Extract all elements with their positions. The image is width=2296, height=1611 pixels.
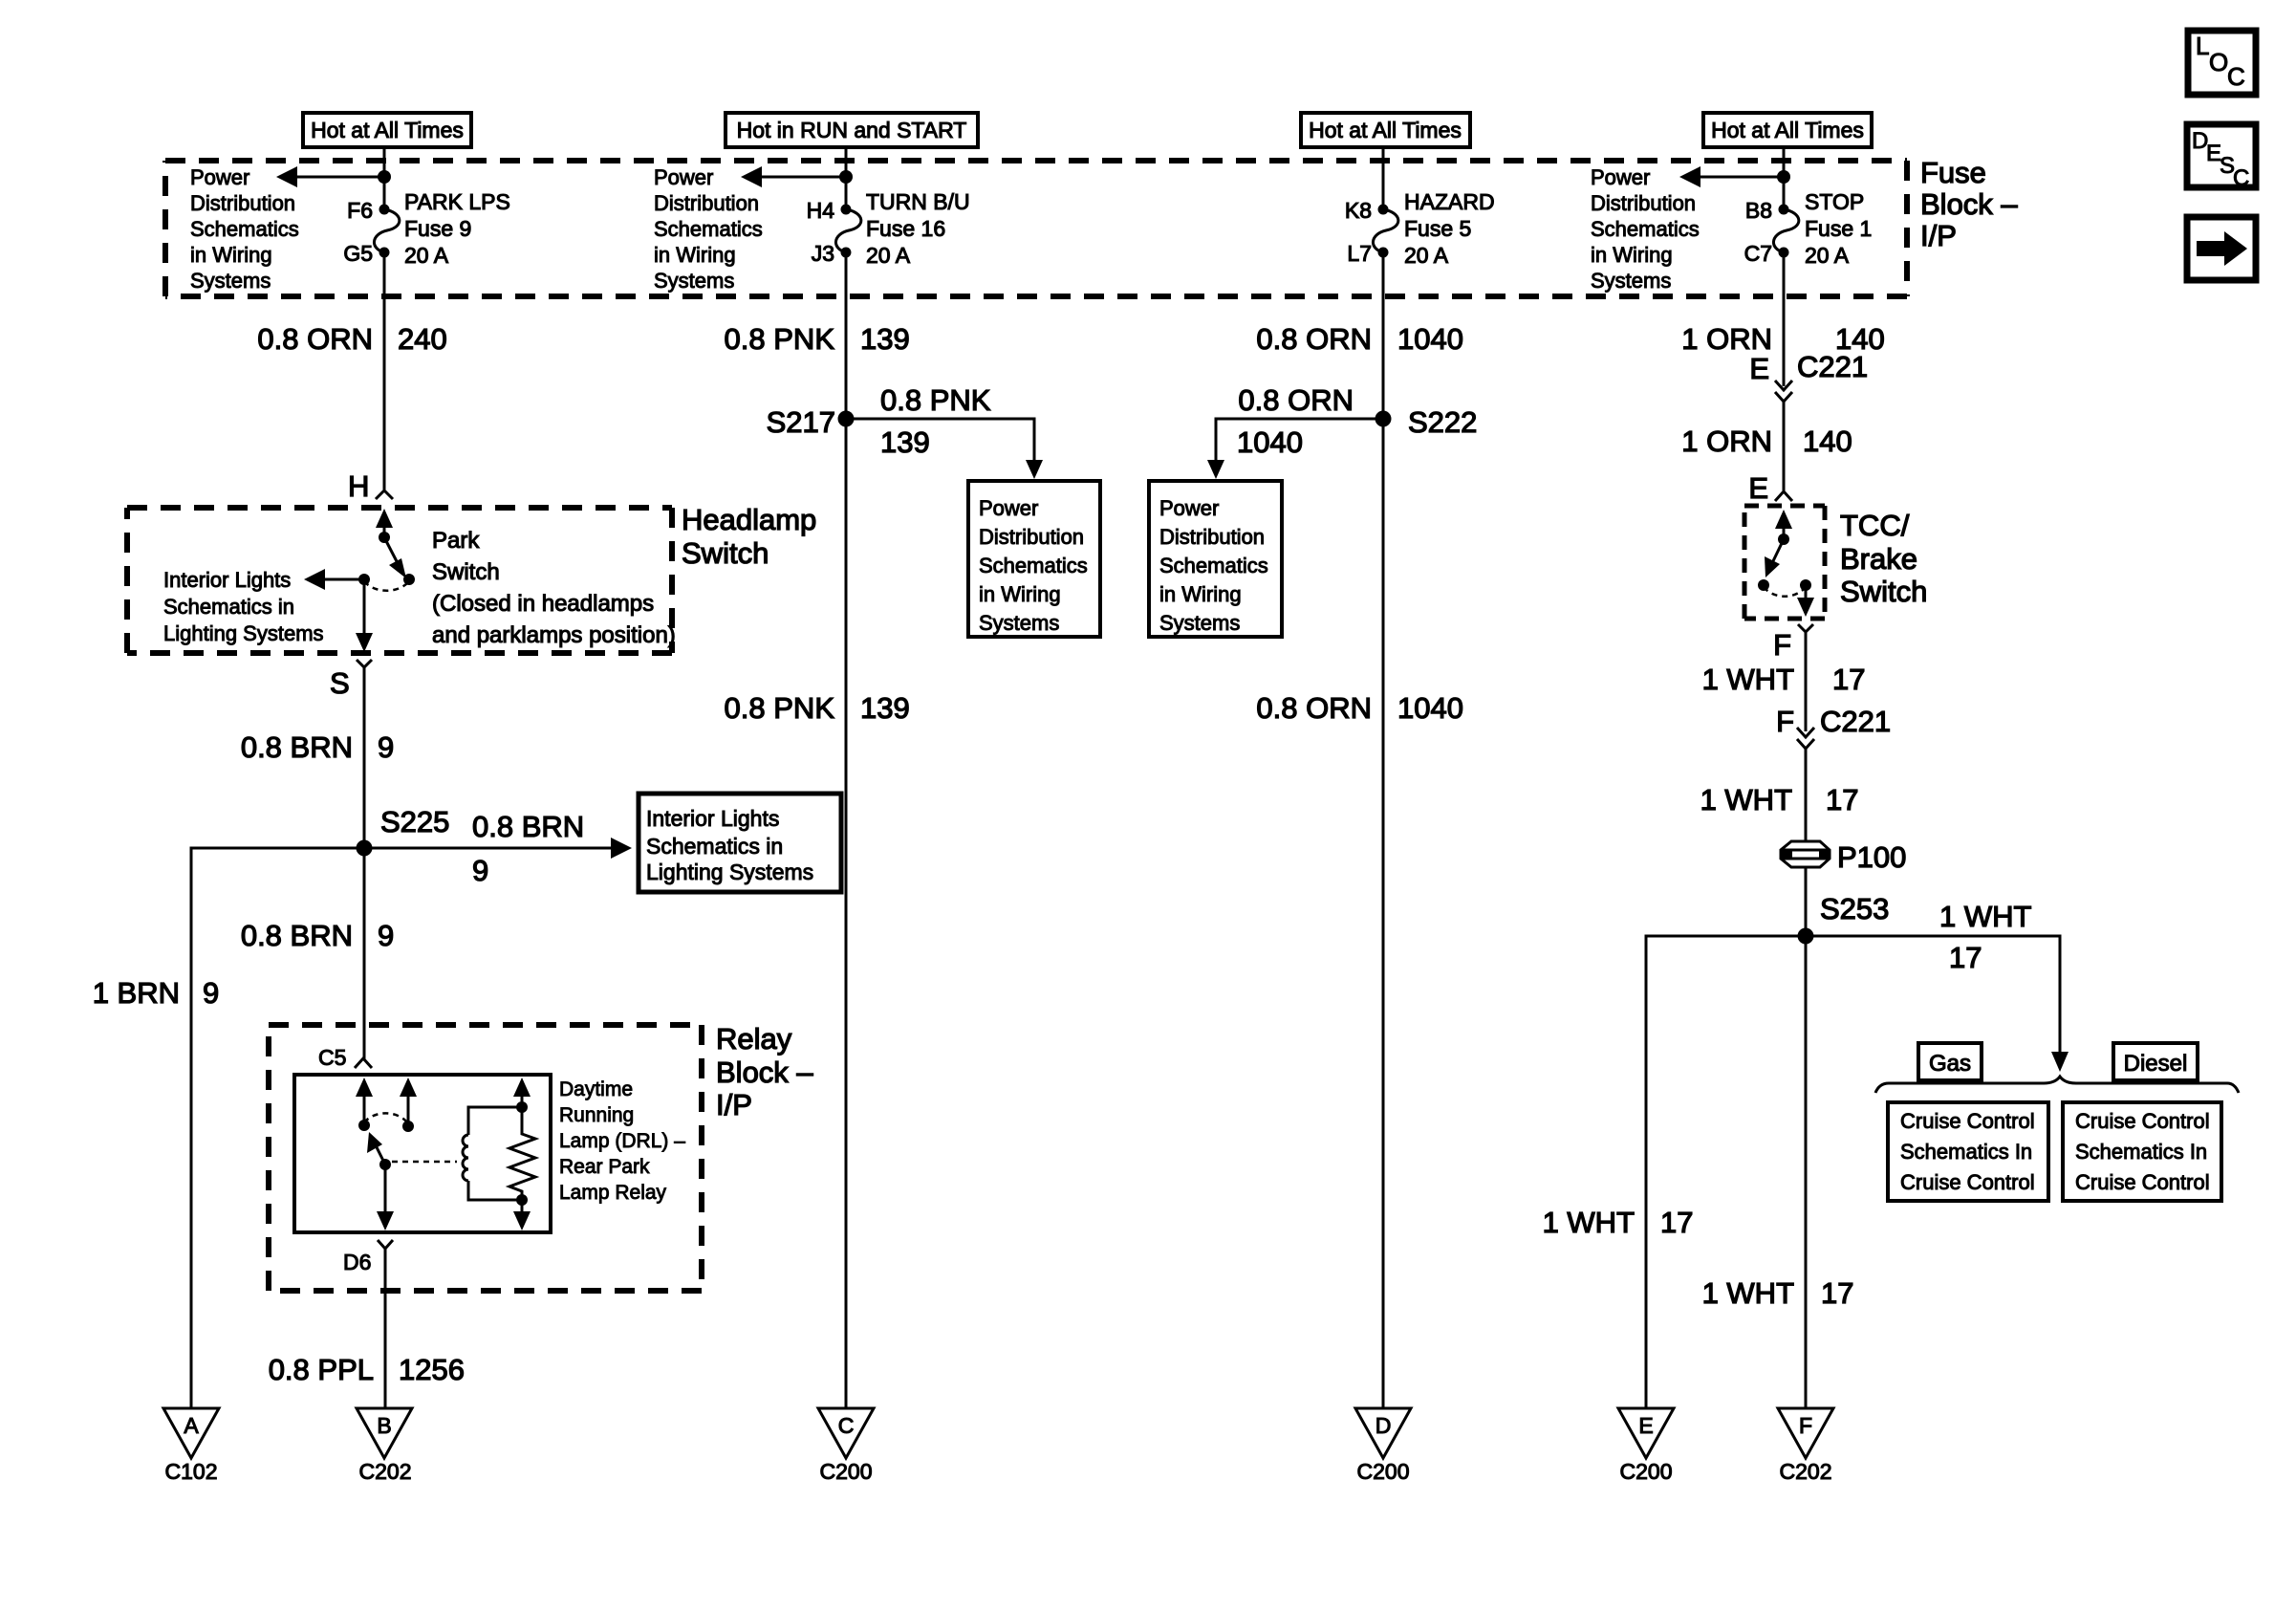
label Fuse Block - I/P [1920,156,2018,252]
svg-text:1 WHT: 1 WHT [1702,1276,1795,1310]
svg-text:Switch: Switch [682,536,769,570]
svg-text:and parklamps position): and parklamps position) [432,622,676,648]
svg-text:Lamp (DRL) –: Lamp (DRL) – [559,1130,685,1152]
svg-text:D: D [1375,1413,1392,1438]
connector chevron C5 [355,1058,372,1068]
svg-text:STOP: STOP [1805,189,1864,214]
connector triangle A [163,1408,219,1484]
svg-text:Fuse 1: Fuse 1 [1805,216,1872,241]
svg-text:in Wiring: in Wiring [1591,243,1673,267]
svg-text:C5: C5 [318,1045,346,1070]
svg-text:Distribution: Distribution [1591,191,1696,215]
wire col1 fuse to headlamp switch [383,252,386,490]
svg-text:Interior Lights: Interior Lights [163,568,291,592]
wire col4 arrow to power distribution [1679,166,1784,187]
svg-text:0.8 PNK: 0.8 PNK [880,383,991,417]
label Power Distribution Schematics in Wiring Systems (col 4) [1591,165,1700,293]
wire col3 feed from header [1382,148,1385,209]
svg-text:Power: Power [979,496,1038,520]
label TCC/ Brake Switch [1840,509,1927,608]
svg-text:Schematics: Schematics [1591,217,1700,241]
wire col4 fuse down to C221 [1783,252,1786,386]
park switch contacts [358,574,415,591]
svg-text:Headlamp: Headlamp [682,503,816,536]
connector chevron H [376,490,393,499]
label 0.8 BRN 9 (lower) [241,919,394,952]
wire S225 down to relay block [363,848,366,1060]
svg-text:Hot at All Times: Hot at All Times [311,118,464,142]
svg-text:Schematics: Schematics [1159,554,1268,577]
label Power Distribution Schematics in Wiring Systems (col 1) [190,165,299,293]
svg-text:G5: G5 [343,241,373,266]
label PARK LPS Fuse 9 20 A [404,189,510,268]
svg-text:0.8 BRN: 0.8 BRN [241,919,353,952]
svg-text:S217: S217 [767,405,835,439]
headlamp switch dashed box [127,508,672,653]
svg-text:Hot at All Times: Hot at All Times [1309,118,1462,142]
svg-text:Cruise Control: Cruise Control [1900,1170,2035,1194]
connector triangle E [1618,1408,1674,1484]
svg-text:Schematics In: Schematics In [1900,1140,2032,1164]
svg-text:Distribution: Distribution [1159,525,1265,549]
svg-text:Systems: Systems [979,611,1059,635]
svg-text:S222: S222 [1408,405,1477,439]
svg-text:Daytime: Daytime [559,1078,633,1100]
svg-text:Systems: Systems [1159,611,1240,635]
svg-text:17: 17 [1826,783,1858,816]
svg-text:1 ORN: 1 ORN [1681,425,1772,458]
wire D6 to connector B [384,1249,387,1408]
wire col4 feed from header [1783,148,1786,209]
wire F to C221 second crossing [1805,632,1808,731]
interior lights schematics box [639,794,841,892]
svg-text:Lighting Systems: Lighting Systems [163,621,324,645]
svg-text:9: 9 [378,730,394,764]
svg-text:C: C [2233,165,2249,191]
svg-text:1040: 1040 [1237,425,1303,459]
svg-text:TCC/: TCC/ [1840,509,1910,542]
power distribution schematics box (col2) [968,481,1100,637]
svg-text:F: F [1799,1413,1812,1438]
svg-text:C221: C221 [1797,350,1868,383]
svg-text:Schematics: Schematics [654,217,763,241]
svg-text:P100: P100 [1837,840,1906,874]
svg-text:0.8 PNK: 0.8 PNK [725,691,835,725]
svg-text:Block –: Block – [1920,187,2018,221]
connector triangle B [357,1408,412,1484]
cruise control schematics box (diesel) [2063,1102,2221,1201]
label Daytime Running Lamp (DRL) - Rear Park Lamp Relay [559,1078,685,1204]
svg-text:0.8 PNK: 0.8 PNK [725,322,835,356]
svg-text:Switch: Switch [432,559,500,585]
svg-text:Schematics In: Schematics In [2075,1140,2207,1164]
connector chevron D6 [378,1240,393,1249]
wire col2 feed from header [845,148,848,209]
wire P100 to S253 [1805,866,1808,936]
svg-text:Power: Power [654,165,713,189]
svg-text:Fuse 5: Fuse 5 [1404,216,1471,241]
svg-text:C7: C7 [1744,241,1772,266]
LOC legend icon [2188,31,2256,95]
wire col2 arrow to power distribution [741,166,846,187]
node S253 splice [1798,892,1890,945]
wire col3 S222 down to connector D [1382,419,1385,1408]
svg-text:H4: H4 [807,198,835,223]
svg-text:B: B [377,1413,391,1438]
connector chevron E [1775,491,1792,501]
svg-text:139: 139 [860,691,910,725]
fuse STOP Fuse 1 20 A [1773,205,1798,258]
relay block I/P dashed box [269,1025,702,1291]
svg-text:C221: C221 [1820,705,1891,738]
svg-text:D6: D6 [343,1250,371,1274]
svg-text:140: 140 [1803,425,1852,458]
TCC switch output arrow down [1797,585,1814,617]
svg-text:Distribution: Distribution [654,191,759,215]
svg-text:Systems: Systems [654,269,734,293]
svg-text:Fuse: Fuse [1920,156,1986,189]
svg-text:Systems: Systems [190,269,271,293]
svg-text:20 A: 20 A [1404,243,1449,268]
svg-text:K8: K8 [1345,198,1372,223]
svg-text:C200: C200 [820,1459,873,1484]
svg-text:9: 9 [472,854,488,887]
svg-text:0.8 ORN: 0.8 ORN [1256,322,1372,356]
label 0.8 PNK 139 (upper) [725,322,910,356]
svg-text:139: 139 [880,425,930,459]
park switch arm [384,537,406,578]
svg-text:I/P: I/P [716,1088,752,1121]
relay contact arrow up (left) [356,1078,373,1131]
svg-text:17: 17 [1660,1206,1693,1239]
svg-text:E: E [1638,1413,1653,1438]
svg-text:C202: C202 [1780,1459,1832,1484]
node col4 branch junction [1777,170,1790,184]
DESC legend icon [2187,124,2256,191]
node S222 splice [1375,405,1478,439]
svg-text:F: F [1776,705,1794,738]
TCC switch input arrow [1775,510,1792,545]
connector C221 E crossing [1749,350,1868,405]
pass-through grommet P100 [1781,840,1906,874]
connector triangle F [1778,1408,1833,1484]
svg-text:139: 139 [860,322,910,356]
label 0.8 ORN 1040 (lower) [1256,691,1463,725]
svg-text:Hot at All Times: Hot at All Times [1711,118,1864,142]
wire C221 to P100 [1805,749,1808,840]
wire col2 fuse down to S217 [845,252,848,419]
forward arrow legend icon [2187,217,2256,280]
svg-text:in Wiring: in Wiring [1159,582,1242,606]
relay contact dashed arc [364,1113,408,1123]
svg-text:Schematics: Schematics [979,554,1088,577]
svg-text:1040: 1040 [1397,322,1463,356]
svg-text:Power: Power [190,165,249,189]
wire col3 fuse down to S222 [1382,252,1385,419]
svg-text:1 WHT: 1 WHT [1939,900,2032,933]
label 1 WHT 17 (mid) [1700,783,1859,816]
label Park Switch (Closed in headlamps and parklamps position) [432,528,676,648]
fuse TURN B/U Fuse 16 20 A [835,205,860,258]
svg-text:Brake: Brake [1840,542,1917,576]
svg-text:TURN B/U: TURN B/U [866,189,970,214]
wire col1 feed from header into fuse block [383,147,386,209]
wire col1 S to S225 [363,667,366,848]
power distribution schematics box (col3) [1149,481,1282,637]
park switch input arrow [376,509,393,543]
TCC switch arm [1765,539,1784,577]
svg-text:H: H [348,469,369,503]
label 1 WHT 17 (upper) [1702,663,1866,696]
svg-text:Gas: Gas [1929,1051,1971,1077]
svg-text:Power: Power [1591,165,1650,189]
svg-text:Schematics: Schematics [190,217,299,241]
svg-text:0.8 BRN: 0.8 BRN [472,810,584,843]
connector chevron F [1798,624,1813,634]
park switch output arrow down [356,579,373,652]
svg-text:L7: L7 [1347,241,1372,266]
label Interior Lights Schematics in Lighting Systems [163,568,324,645]
wire C221 to TCC brake switch [1783,402,1786,490]
label box Gas [1918,1043,1982,1080]
svg-text:240: 240 [398,322,447,356]
svg-text:I/P: I/P [1920,219,1957,252]
wire S225 branch arrow to interior lights box [364,810,632,887]
svg-text:C200: C200 [1357,1459,1410,1484]
svg-text:17: 17 [1821,1276,1853,1310]
svg-text:Switch: Switch [1840,575,1927,608]
svg-text:C202: C202 [359,1459,412,1484]
svg-text:in Wiring: in Wiring [654,243,736,267]
svg-text:Interior Lights: Interior Lights [646,806,779,831]
label TURN B/U Fuse 16 20 A [866,189,970,268]
connector triangle D [1355,1408,1411,1484]
svg-text:Cruise Control: Cruise Control [2075,1109,2210,1133]
connector triangle C [818,1408,874,1484]
label 0.8 PPL 1256 [269,1353,465,1386]
svg-text:Block –: Block – [716,1056,813,1089]
wire S222 branch to power distribution box [1207,383,1383,479]
relay contact arrow up (mid) [400,1078,417,1132]
TCC brake switch dashed box [1744,506,1825,619]
header box Hot at All Times (col 3) [1301,113,1470,147]
svg-text:0.8 PPL: 0.8 PPL [269,1353,374,1386]
svg-text:A: A [184,1413,199,1438]
wire col1 arrow to power distribution [276,166,384,187]
wire S217 branch to power distribution box [846,383,1043,479]
wire S253 branch right arrow down [1806,900,2069,1072]
svg-text:1040: 1040 [1397,691,1463,725]
svg-text:Lamp Relay: Lamp Relay [559,1182,667,1204]
relay coil return arrow down (right) [513,1194,531,1230]
svg-text:C: C [838,1413,855,1438]
label 1 WHT 17 (E branch) [1543,1206,1694,1239]
svg-text:1256: 1256 [399,1353,465,1386]
label 0.8 PNK 139 (lower) [725,691,910,725]
relay resistor [509,1107,535,1200]
svg-text:17: 17 [1949,941,1982,974]
label Headlamp Switch [682,503,816,570]
svg-text:(Closed in headlamps: (Closed in headlamps [432,591,654,617]
svg-text:Running: Running [559,1104,634,1126]
label Power Distribution Schematics in Wiring Systems (col 2) [654,165,763,293]
svg-text:E: E [1749,352,1769,385]
svg-text:20 A: 20 A [404,243,449,268]
label 0.8 ORN 1040 (upper) [1256,322,1463,356]
svg-text:0.8 ORN: 0.8 ORN [1256,691,1372,725]
fuse block I/P dashed box [165,161,1907,296]
wire col2 S217 down to connector C [845,419,848,1408]
fuse HAZARD Fuse 5 20 A [1373,205,1397,258]
connector chevron S [357,660,372,669]
svg-text:1 WHT: 1 WHT [1700,783,1793,816]
label 0.8 BRN 9 (upper) [241,730,394,764]
node S225 splice [357,805,450,857]
wire arrow to interior lights schematics [304,569,364,590]
svg-text:B8: B8 [1745,198,1772,223]
svg-text:S253: S253 [1820,892,1889,925]
svg-text:L: L [2196,32,2209,60]
svg-text:C: C [2227,62,2245,91]
svg-text:Fuse 16: Fuse 16 [866,216,945,241]
node S217 splice [767,405,855,439]
label HAZARD Fuse 5 20 A [1404,189,1495,268]
svg-text:S: S [330,666,350,700]
relay switch arm [367,1132,391,1170]
svg-text:20 A: 20 A [1805,243,1850,268]
svg-text:9: 9 [203,976,219,1010]
TCC switch contacts [1758,579,1811,597]
svg-text:Schematics in: Schematics in [646,834,783,859]
label 1 BRN 9 [93,976,220,1010]
svg-text:1 WHT: 1 WHT [1702,663,1795,696]
svg-text:0.8 ORN: 0.8 ORN [257,322,373,356]
wire S225 branch left to connector A [191,848,364,1408]
brace over cruise control boxes [1875,1077,2239,1093]
label 1 ORN 140 (mid) [1681,425,1852,458]
connector C221 F crossing [1776,705,1891,752]
svg-text:HAZARD: HAZARD [1404,189,1495,214]
svg-text:PARK LPS: PARK LPS [404,189,510,214]
node col1 branch junction [378,170,391,184]
svg-text:J3: J3 [812,241,834,266]
relay switch output arrow down [377,1165,394,1230]
header box Hot at All Times (col 4) [1703,113,1872,147]
fuse PARK LPS Fuse 9 20 A [374,205,399,258]
svg-text:in Wiring: in Wiring [190,243,272,267]
label STOP Fuse 1 20 A [1805,189,1872,268]
svg-text:in Wiring: in Wiring [979,582,1061,606]
cruise control schematics box (gas) [1888,1102,2048,1201]
svg-text:C200: C200 [1620,1459,1673,1484]
label 1 ORN 140 (upper) [1681,322,1884,356]
svg-text:F6: F6 [347,198,373,223]
svg-text:Diesel: Diesel [2124,1051,2188,1077]
svg-text:Power: Power [1159,496,1219,520]
svg-text:Rear Park: Rear Park [559,1156,650,1178]
svg-text:Systems: Systems [1591,269,1671,293]
svg-text:Cruise Control: Cruise Control [1900,1109,2035,1133]
relay coil feed arrow up (right) [513,1078,531,1113]
svg-text:Hot in RUN and START: Hot in RUN and START [737,118,967,142]
label box Diesel [2113,1043,2198,1080]
wire F branch down to connector F [1805,936,1808,1408]
header box Hot at All Times (col 1) [303,113,471,147]
header box Hot in RUN and START (col 2) [726,113,978,147]
label 0.8 ORN 240 [257,322,446,356]
svg-text:F: F [1773,628,1791,662]
svg-text:Cruise Control: Cruise Control [2075,1170,2210,1194]
svg-text:C102: C102 [165,1459,218,1484]
node col2 branch junction [839,170,853,184]
svg-text:Distribution: Distribution [190,191,295,215]
svg-text:0.8 ORN: 0.8 ORN [1238,383,1354,417]
svg-text:17: 17 [1832,663,1865,696]
label Relay Block - I/P [716,1022,813,1121]
svg-text:Lighting Systems: Lighting Systems [646,860,813,884]
svg-text:E: E [1748,471,1768,505]
svg-text:S225: S225 [380,805,449,838]
svg-text:0.8 BRN: 0.8 BRN [241,730,353,764]
svg-text:Fuse 9: Fuse 9 [404,216,471,241]
svg-text:1 BRN: 1 BRN [93,976,180,1010]
relay DRL solid box [294,1075,551,1232]
wire S253 branch left to connector E [1646,936,1806,1408]
relay coil [463,1107,524,1200]
svg-text:Relay: Relay [716,1022,792,1056]
label 1 WHT 17 (F lower) [1702,1276,1854,1310]
svg-text:Schematics in: Schematics in [163,595,294,619]
svg-text:Park: Park [432,528,480,554]
svg-text:9: 9 [378,919,394,952]
svg-text:Distribution: Distribution [979,525,1084,549]
svg-text:20 A: 20 A [866,243,911,268]
svg-text:1 ORN: 1 ORN [1681,322,1772,356]
svg-text:1 WHT: 1 WHT [1543,1206,1635,1239]
svg-text:O: O [2209,48,2228,76]
relay coil dashed link [392,1161,457,1164]
